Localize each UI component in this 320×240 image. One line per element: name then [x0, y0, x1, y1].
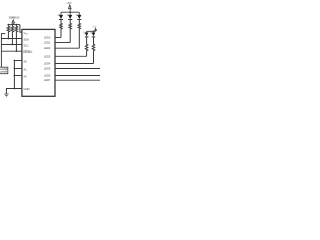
svg-text:controller: controller — [0, 70, 7, 73]
ground — [4, 94, 8, 97]
junction dots SDA SCL RESET — [8, 38, 18, 52]
LED D1 with resistor R4 — [57, 12, 63, 37]
svg-text:RESET: RESET — [24, 50, 33, 54]
wire LED6 row — [55, 75, 100, 77]
wire A2 — [14, 75, 22, 77]
svg-text:LED1: LED1 — [44, 41, 51, 45]
IC U1 box — [22, 29, 55, 96]
svg-text:LED0: LED0 — [44, 36, 51, 40]
resistor R1 — [7, 25, 10, 39]
svg-text:SDA: SDA — [24, 37, 30, 41]
wire RESET — [1, 50, 22, 52]
LED D3 with resistor R6 — [76, 12, 82, 48]
svg-text:LED5: LED5 — [44, 67, 51, 71]
resistor R2 — [11, 25, 14, 45]
svg-text:SCL: SCL — [24, 43, 30, 47]
junction dots A ties — [14, 60, 16, 90]
reset controller box — [0, 67, 8, 74]
LED D5 with resistor R8 — [90, 31, 95, 63]
junction dot — [69, 11, 71, 13]
supply arrow (pull-up rail) — [12, 20, 15, 23]
wire LED3 row — [55, 55, 87, 57]
wire LED1 row — [55, 42, 70, 44]
wire LED4 row — [55, 63, 94, 65]
LED D4 with resistor R7 — [83, 31, 88, 56]
svg-text:LED4: LED4 — [44, 62, 51, 66]
junction dot — [93, 30, 95, 32]
svg-text:A1: A1 — [24, 67, 28, 71]
svg-text:SMBUS: SMBUS — [9, 15, 20, 19]
supply arrow +5V right — [95, 28, 97, 30]
wire LED5 row — [55, 68, 100, 70]
wire top bus — [61, 11, 79, 13]
svg-text:LED3: LED3 — [44, 54, 51, 58]
svg-text:LED6: LED6 — [44, 74, 51, 78]
wire GND — [6, 89, 22, 94]
wire A1 — [14, 68, 22, 70]
svg-text:+5V: +5V — [92, 26, 97, 29]
wire LED0 row — [55, 37, 61, 39]
resistor R3 — [15, 25, 18, 52]
svg-text:GND: GND — [24, 87, 30, 91]
svg-text:A0: A0 — [24, 59, 28, 63]
wire right bus — [87, 30, 96, 32]
wire LED7 row — [55, 79, 100, 81]
wire LED2 row — [55, 47, 79, 49]
wire VDD — [20, 25, 22, 32]
wire A0 — [14, 60, 22, 62]
wire SCL — [1, 44, 22, 46]
svg-text:LED7: LED7 — [44, 78, 51, 82]
wire SDA — [1, 38, 22, 40]
svg-text:A2: A2 — [24, 74, 28, 78]
svg-text:LED2: LED2 — [44, 46, 51, 50]
node SMBus bus vertical — [1, 34, 5, 68]
svg-text:VDD: VDD — [24, 31, 29, 35]
wire A-tie vertical — [13, 61, 15, 89]
supply arrow +5V — [69, 5, 72, 9]
junction rail dots — [8, 24, 18, 26]
wire pull-up rail — [8, 24, 20, 26]
svg-text:+5V: +5V — [66, 1, 71, 5]
LED D2 with resistor R5 — [67, 12, 73, 42]
